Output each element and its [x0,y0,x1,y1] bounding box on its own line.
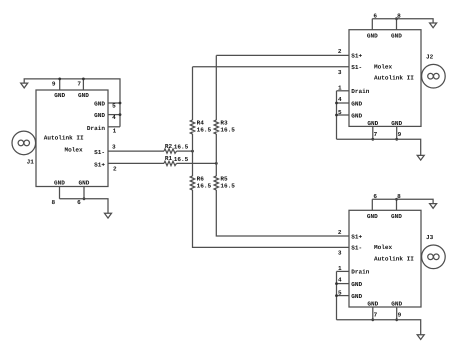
svg-text:GND: GND [351,293,362,300]
svg-text:J3: J3 [426,234,434,241]
pin number 8 [397,13,401,20]
pin name GND (J3 pin 9) [391,300,402,307]
wire R4 to node S1-minus [192,134,194,151]
label 16.5 (R1) [174,156,189,163]
pin number 5 [338,109,342,116]
svg-text:J1: J1 [27,158,35,165]
pin name GND (J1 pin 4) [94,112,105,119]
svg-text:8: 8 [52,199,56,206]
J2 pin 7 [372,126,374,139]
J2 connector circle symbol [422,64,446,88]
label Molex (J3) [374,244,393,251]
wire J1 pin 2 to R1 [108,162,164,164]
junction node S1-plus [215,162,218,165]
label Autolink II (J3) [374,255,414,262]
ground (J3 bottom) [417,335,424,340]
svg-text:GND: GND [391,32,402,39]
pin name GND (J2 pin 6) [367,32,378,39]
pin number 6 [373,193,377,200]
wire R1 to node S1-plus [177,162,217,164]
svg-text:3: 3 [338,250,342,257]
J3 pin 7 [372,307,374,320]
pin number 2 [338,48,342,55]
label R3 [220,119,228,126]
label 16.5 (R4) [197,126,212,133]
svg-text:GND: GND [367,300,378,307]
svg-text:R1: R1 [165,155,173,162]
svg-text:GND: GND [54,179,65,186]
pin name GND (J1 pin 8) [54,179,65,186]
junction at J2 pin 8 [395,17,398,20]
label Molex (J2) [374,63,393,70]
wire node S1-minus to J2 pin 3 column [192,67,194,120]
J1 pin 5 [108,102,120,104]
svg-text:GND: GND [367,32,378,39]
svg-text:2: 2 [113,165,117,172]
pin name Drain (J1 pin 1) [87,125,106,132]
svg-text:S1-: S1- [351,245,362,252]
wire J1 top GND bus [24,79,120,127]
svg-text:16.5: 16.5 [174,156,189,163]
junction at J1 pin 7 [82,78,85,81]
svg-text:GND: GND [391,213,402,220]
connector J2 body [349,30,421,127]
svg-text:7: 7 [77,80,81,87]
svg-text:S1+: S1+ [94,161,105,168]
label Autolink II (J2) [374,75,414,82]
wire J3 drain bracket [336,271,338,319]
pin number 1 [338,84,342,91]
J3 pin 4 [337,283,350,285]
label J3 [426,234,434,241]
svg-text:4: 4 [338,96,342,103]
svg-text:Drain: Drain [351,269,370,276]
svg-text:5: 5 [338,109,342,116]
svg-text:6: 6 [77,199,81,206]
junction at J2 pin 9 [395,138,398,141]
connector J3 body [349,210,421,307]
svg-text:Drain: Drain [87,125,106,132]
junction at J3 pin 4 [335,282,338,285]
junction at J2 pin 5 [335,114,338,117]
pin name S1- (J2 pin 3) [351,64,362,71]
label Molex (J1) [65,147,84,154]
svg-text:R2: R2 [165,143,173,150]
pin name S1- (J1 pin 3) [94,149,105,156]
svg-text:2: 2 [338,229,342,236]
J1 pin 1 Drain [108,126,120,128]
pin name S1- (J3 pin 3) [351,245,362,252]
wire J2 drain bracket [336,91,338,139]
pin name GND (J3 pin 7) [367,300,378,307]
svg-text:GND: GND [54,92,65,99]
svg-text:S1+: S1+ [351,53,362,60]
svg-text:9: 9 [398,312,402,319]
J2 pin 9 [396,126,398,139]
junction node S1-minus [191,150,194,153]
label R5 [220,175,228,182]
wire J2 top GND bus [372,19,433,23]
wire R3 to node S1-plus [215,134,217,163]
wire node S1-plus to R5 [215,163,217,176]
svg-text:GND: GND [391,300,402,307]
J3 pin 1 Drain [337,270,350,272]
label 16.5 (R5) [220,182,235,189]
pin number 4 [338,276,342,283]
svg-text:5: 5 [338,290,342,297]
svg-text:1: 1 [113,127,117,134]
pin number 6 [373,13,377,20]
svg-text:16.5: 16.5 [174,144,189,151]
J1 pin 6 [83,187,85,199]
junction at J1 pin 5 [119,102,122,105]
svg-text:Molex: Molex [65,147,84,154]
junction at J1 pin 4 [119,113,122,116]
svg-text:GND: GND [79,179,90,186]
J1 connector circle symbol [12,131,36,155]
pin name GND (J3 pin 4) [351,281,362,288]
svg-text:16.5: 16.5 [197,182,212,189]
junction at J1 pin 9 [58,78,61,81]
pin number 4 [112,114,116,121]
J3 pin 8 [396,199,398,210]
label R1 [165,155,173,162]
svg-text:1: 1 [338,84,342,91]
pin number 1 [113,127,117,134]
pin number 3 [112,143,116,150]
svg-text:9: 9 [52,80,56,87]
pin name GND (J1 pin 7) [78,92,89,99]
J1 pin 8 [59,187,61,199]
wire R2 to node S1-minus [177,150,193,152]
wire J2 bottom GND bus [337,139,421,155]
label 16.5 (R3) [220,126,235,133]
pin number 3 [338,250,342,257]
svg-text:GND: GND [367,213,378,220]
pin number 7 [374,131,378,138]
svg-text:Autolink II: Autolink II [374,255,414,262]
pin name GND (J2 pin 8) [391,32,402,39]
junction at J1 pin 6 [83,197,86,200]
pin name Drain (J3 pin 1) [351,269,370,276]
pin number 9 [398,131,402,138]
label J2 [426,53,434,60]
J2 pin 4 [337,102,350,104]
pin number 3 [338,69,342,76]
label R6 [197,175,205,182]
wire R5 to J3 pin 2 [216,190,349,236]
ground (J2 bottom) [417,155,424,160]
svg-text:2: 2 [338,48,342,55]
J2 pin 5 [337,114,350,116]
label J1 [27,158,35,165]
J1 pin 7 [82,79,84,90]
pin number 2 [113,165,117,172]
svg-text:16.5: 16.5 [197,126,212,133]
svg-text:Molex: Molex [374,63,393,70]
svg-text:S1+: S1+ [351,233,362,240]
svg-text:Drain: Drain [351,88,370,95]
junction at J3 pin 7 [371,318,374,321]
label 16.5 (R6) [197,182,212,189]
pin name GND (J3 pin 8) [391,213,402,220]
svg-text:GND: GND [391,120,402,127]
label R2 [165,143,173,150]
pin name GND (J1 pin 5) [94,100,105,107]
label 16.5 (R2) [174,144,189,151]
resistor R2 [164,149,177,153]
J2 pin 6 [371,19,373,30]
svg-text:16.5: 16.5 [220,182,235,189]
svg-text:Autolink II: Autolink II [374,75,414,82]
junction at J2 pin 7 [371,138,374,141]
pin number 9 [398,312,402,319]
ground (J3 top-right) [430,204,437,209]
resistor R3 [214,120,218,134]
J3 connector circle symbol [422,245,446,269]
J1 pin 4 [108,114,120,116]
pin name GND (J2 pin 4) [351,100,362,107]
pin name GND (J2 pin 9) [391,120,402,127]
svg-text:S1-: S1- [94,149,105,156]
svg-text:4: 4 [338,276,342,283]
svg-text:Molex: Molex [374,244,393,251]
pin number 7 [77,80,81,87]
pin name GND (J3 pin 5) [351,293,362,300]
svg-text:7: 7 [374,312,378,319]
label Autolink II (J1) [44,135,84,142]
resistor R5 [214,176,218,190]
pin name GND (J1 pin 9) [54,92,65,99]
junction at J3 pin 8 [395,198,398,201]
pin number 1 [338,265,342,272]
pin name S1+ (J3 pin 2) [351,233,362,240]
pin name Drain (J2 pin 1) [351,88,370,95]
svg-text:S1-: S1- [351,64,362,71]
svg-text:GND: GND [78,92,89,99]
svg-text:J2: J2 [426,53,434,60]
svg-text:3: 3 [112,143,116,150]
svg-text:7: 7 [374,131,378,138]
J1 pin 9 [59,79,61,90]
pin name S1+ (J2 pin 2) [351,53,362,60]
pin number 6 [77,199,81,206]
pin number 9 [52,80,56,87]
svg-text:Autolink II: Autolink II [44,135,84,142]
svg-text:4: 4 [112,114,116,121]
resistor R4 [190,120,194,134]
J3 pin 5 [337,295,350,297]
wire J3 top GND bus [372,199,433,203]
pin number 8 [52,199,56,206]
pin name GND (J2 pin 5) [351,112,362,119]
svg-text:9: 9 [398,131,402,138]
pin name GND (J2 pin 7) [367,120,378,127]
wire J1 bottom GND bus [60,199,109,214]
wire J3 bottom GND bus [337,320,421,335]
svg-text:GND: GND [351,281,362,288]
svg-text:5: 5 [112,103,116,110]
pin name S1+ (J1 pin 2) [94,161,105,168]
J3 pin 6 [371,199,373,210]
resistor R6 [190,176,194,190]
pin number 7 [374,312,378,319]
pin name GND (J3 pin 6) [367,213,378,220]
pin number 5 [112,103,116,110]
ground (J2 top-right) [430,23,437,28]
J2 pin 1 Drain [337,90,350,92]
svg-text:1: 1 [338,265,342,272]
wire node S1-plus to J2 pin 2 column [215,55,217,120]
J2 pin 8 [396,19,398,30]
svg-text:GND: GND [94,112,105,119]
ground (J1 top-left) [21,83,28,88]
wire node S1-plus top to J2 pin 2 [216,54,349,56]
svg-text:3: 3 [338,69,342,76]
svg-text:16.5: 16.5 [220,126,235,133]
junction at J3 pin 9 [395,318,398,321]
svg-text:GND: GND [351,112,362,119]
resistor R1 [164,161,177,165]
svg-text:GND: GND [94,100,105,107]
wire J1 pin 3 to R2 [108,150,164,152]
pin number 8 [397,193,401,200]
pin number 5 [338,290,342,297]
junction at J2 pin 4 [335,102,338,105]
connector J1 body [36,90,108,187]
svg-text:GND: GND [351,100,362,107]
J3 pin 9 [396,307,398,320]
pin name GND (J1 pin 6) [79,179,90,186]
wire node S1-minus to R6 [192,151,194,176]
ground (J1 bottom) [105,213,112,218]
svg-text:GND: GND [367,120,378,127]
wire R6 to J3 pin 3 [193,190,350,247]
junction at J3 pin 5 [335,294,338,297]
label R4 [197,119,205,126]
pin number 2 [338,229,342,236]
pin number 4 [338,96,342,103]
wire node S1-minus top to J2 pin 3 [193,66,350,68]
